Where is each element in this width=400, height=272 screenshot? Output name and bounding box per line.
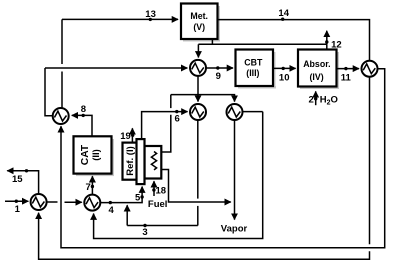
- svg-text:(III): (III): [246, 68, 259, 78]
- svg-text:CAT: CAT: [80, 144, 91, 165]
- svg-text:7: 7: [85, 182, 90, 193]
- svg-text:5: 5: [135, 193, 141, 204]
- svg-text:Fuel: Fuel: [148, 199, 168, 210]
- svg-text:8: 8: [81, 104, 86, 115]
- svg-text:Ref. (I): Ref. (I): [125, 146, 136, 176]
- svg-text:14: 14: [278, 8, 289, 19]
- svg-text:2: 2: [309, 95, 314, 106]
- svg-text:10: 10: [279, 72, 290, 83]
- svg-text:H2O: H2O: [320, 95, 338, 107]
- svg-text:6: 6: [175, 114, 180, 125]
- svg-text:(V): (V): [193, 22, 205, 32]
- svg-text:1: 1: [15, 204, 21, 215]
- svg-text:9: 9: [216, 71, 221, 82]
- svg-text:12: 12: [331, 39, 342, 50]
- svg-text:CBT: CBT: [244, 57, 263, 67]
- svg-text:(II): (II): [91, 149, 102, 161]
- svg-text:19: 19: [120, 131, 131, 142]
- svg-text:13: 13: [145, 9, 156, 20]
- svg-text:Vapor: Vapor: [221, 224, 248, 235]
- svg-text:15: 15: [12, 174, 23, 185]
- svg-text:3: 3: [142, 227, 147, 238]
- svg-text:18: 18: [156, 186, 167, 197]
- svg-text:(IV): (IV): [310, 72, 324, 82]
- svg-text:11: 11: [341, 72, 352, 83]
- svg-text:Absor.: Absor.: [303, 59, 330, 69]
- svg-text:Met.: Met.: [190, 11, 208, 21]
- svg-text:4: 4: [108, 205, 114, 216]
